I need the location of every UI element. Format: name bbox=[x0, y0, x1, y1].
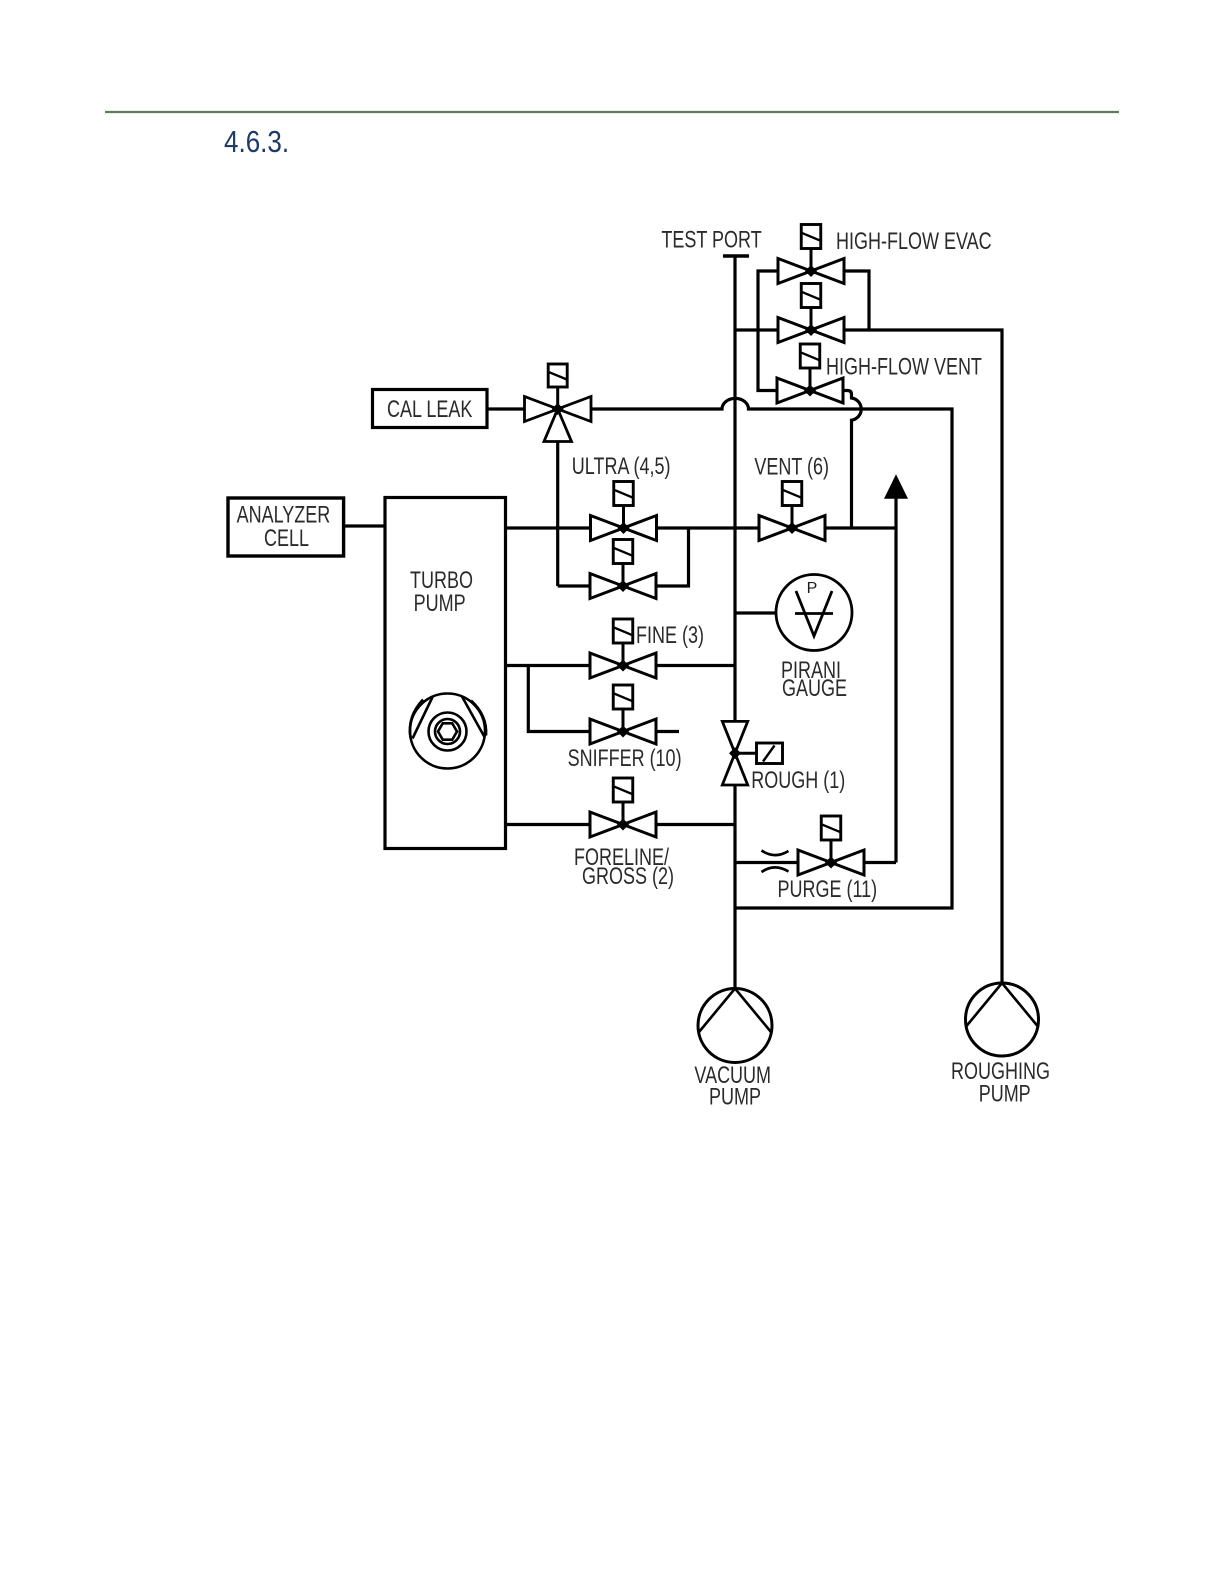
cal leak box bbox=[373, 390, 488, 428]
valve HIGH-FLOW EVAC bbox=[778, 225, 844, 284]
svg-text:GROSS (2): GROSS (2) bbox=[582, 864, 674, 890]
wire foreline line bbox=[506, 823, 736, 826]
wire vent pigtail from high-flow vent valve bbox=[843, 391, 861, 529]
svg-text:ULTRA (4,5): ULTRA (4,5) bbox=[572, 454, 671, 480]
svg-text:PURGE (11): PURGE (11) bbox=[778, 877, 878, 903]
wire fine line bbox=[506, 664, 736, 667]
valve FORELINE/GROSS (2) bbox=[590, 778, 656, 837]
svg-text:FINE (3): FINE (3) bbox=[636, 623, 704, 649]
valve ULTRA lower (5) bbox=[590, 540, 656, 599]
wire evac valve right stub bbox=[844, 271, 869, 330]
svg-text:4.6.3.: 4.6.3. bbox=[224, 125, 289, 160]
wire pirani stub bbox=[735, 611, 777, 614]
svg-text:PUMP: PUMP bbox=[414, 591, 466, 617]
valve SNIFFER (10) bbox=[590, 685, 656, 744]
svg-text:CELL: CELL bbox=[264, 526, 309, 552]
wire high-flow left rail bbox=[758, 271, 779, 391]
wire cal-leak line with hop bbox=[487, 398, 952, 908]
wire ultra bypass loop bbox=[558, 528, 689, 586]
valve high-flow middle bbox=[778, 284, 844, 343]
test port bar bbox=[723, 254, 749, 258]
pirani gauge bbox=[776, 575, 852, 651]
roughing pump symbol bbox=[966, 983, 1039, 1056]
valve FINE (3) bbox=[590, 619, 656, 678]
svg-text:GAUGE: GAUGE bbox=[782, 676, 847, 702]
wire vent valve right line bbox=[825, 526, 896, 529]
wire ultra line bbox=[506, 526, 760, 529]
svg-text:PUMP: PUMP bbox=[709, 1084, 761, 1110]
valve HIGH-FLOW VENT bbox=[777, 344, 843, 403]
header rule bbox=[105, 111, 1119, 113]
svg-text:VENT (6): VENT (6) bbox=[754, 454, 829, 480]
wire purge line bbox=[735, 861, 896, 864]
wire cal-leak valve down stem bbox=[556, 442, 559, 587]
analyzer cell box bbox=[228, 498, 344, 556]
svg-text:PUMP: PUMP bbox=[979, 1081, 1031, 1107]
atmosphere arrow bbox=[884, 474, 908, 499]
svg-text:SNIFFER (10): SNIFFER (10) bbox=[568, 746, 682, 772]
svg-text:ANALYZER: ANALYZER bbox=[237, 502, 331, 528]
svg-text:P: P bbox=[807, 580, 818, 597]
valve ULTRA upper (4) bbox=[591, 482, 657, 541]
svg-text:HIGH-FLOW VENT: HIGH-FLOW VENT bbox=[826, 354, 982, 380]
svg-text:TEST PORT: TEST PORT bbox=[661, 227, 761, 253]
wire high-flow mid line to right rail bbox=[735, 330, 1002, 983]
svg-text:HIGH-FLOW EVAC: HIGH-FLOW EVAC bbox=[836, 229, 992, 255]
svg-text:CAL LEAK: CAL LEAK bbox=[387, 396, 472, 422]
wire analyzer cell connection bbox=[344, 524, 385, 527]
valve ROUGH (1) vertical bbox=[722, 721, 782, 785]
valve CAL LEAK 3-way bbox=[525, 364, 592, 442]
wire vent arrow rail bbox=[894, 498, 897, 863]
turbo pump icon bbox=[410, 694, 486, 769]
valve VENT (6) bbox=[759, 482, 825, 541]
turbo pump box bbox=[385, 498, 506, 849]
valve PURGE (11) bbox=[798, 816, 864, 875]
purge flow restrictor bbox=[762, 851, 789, 873]
svg-text:ROUGH (1): ROUGH (1) bbox=[751, 768, 845, 794]
wire main manifold vertical bbox=[733, 258, 736, 989]
vacuum pump symbol bbox=[698, 989, 772, 1063]
wire sniffer branch bbox=[528, 666, 679, 732]
